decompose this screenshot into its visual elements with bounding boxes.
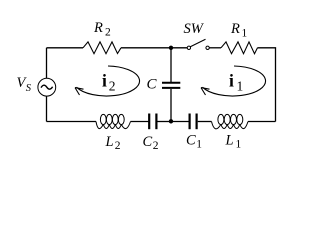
source VS [17, 75, 56, 96]
wire middle vertical lower [170, 89, 172, 122]
svg-text:C: C [147, 77, 158, 93]
svg-text:C: C [186, 133, 196, 149]
svg-text:1: 1 [242, 27, 248, 39]
svg-text:1: 1 [236, 139, 242, 151]
resistor R1 [221, 21, 258, 54]
wire switch to R1 [209, 47, 221, 49]
svg-text:1: 1 [237, 78, 244, 93]
node B (bottom junction dot) [169, 119, 173, 123]
svg-text:L: L [225, 133, 234, 149]
inductor L1 [212, 114, 249, 150]
wire node A to switch [171, 47, 187, 49]
wire bottom-left [47, 121, 97, 123]
wire C2 to node B [158, 121, 172, 123]
capacitor C2 [143, 114, 159, 152]
mesh current i2 arrow [75, 66, 140, 96]
wire C1 to L1 [198, 121, 212, 123]
wire R2 to node A [121, 47, 171, 49]
wire left vertical top [46, 48, 48, 79]
capacitor C1 [186, 114, 202, 151]
wire R1 to top-right corner [258, 48, 276, 122]
mesh current i1 arrow [201, 66, 266, 96]
switch SW [184, 21, 210, 50]
inductor L2 [96, 114, 131, 151]
wire left vertical bottom [46, 96, 48, 121]
wire node B to C1 [171, 121, 189, 123]
svg-text:C: C [143, 134, 153, 150]
capacitor C [147, 77, 181, 93]
wire L2 to C2 [131, 121, 149, 123]
svg-text:2: 2 [105, 26, 111, 38]
svg-text:2: 2 [153, 140, 159, 152]
svg-text:i: i [102, 71, 107, 91]
svg-text:1: 1 [196, 139, 202, 151]
wire L1 to bottom-right corner [248, 121, 276, 123]
svg-text:2: 2 [109, 78, 116, 93]
svg-text:L: L [105, 134, 114, 150]
svg-text:S: S [26, 83, 32, 94]
wire top-left horizontal [47, 47, 84, 49]
svg-text:SW: SW [184, 21, 205, 37]
wire middle vertical upper [170, 48, 172, 82]
resistor R2 [83, 20, 121, 54]
node A (top junction dot) [169, 46, 173, 50]
svg-text:R: R [230, 21, 240, 37]
svg-text:R: R [93, 20, 103, 36]
svg-text:i: i [229, 71, 234, 91]
svg-text:2: 2 [115, 140, 121, 152]
